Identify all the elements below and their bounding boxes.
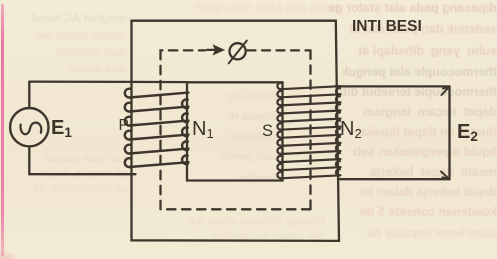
secondary coil right end arcs: [336, 88, 340, 94]
secondary coil S/N2 turns: [277, 83, 340, 178]
core outer outline: [132, 21, 340, 241]
flux meter M1 circle: [230, 43, 246, 59]
label P: [119, 118, 129, 134]
AC source sine glyph: [21, 123, 42, 135]
ghost text: top band above core: [130, 1, 340, 13]
core window: [187, 82, 283, 180]
arrowhead top-right: [442, 86, 450, 95]
load terminal vertical E2: [448, 86, 450, 179]
label E1: [51, 118, 72, 140]
primary coil P/N1 turns: [125, 89, 189, 167]
ghost show-through text: right column: [330, 2, 497, 15]
primary coil left end arcs: [125, 89, 131, 98]
wire: source top riser: [28, 82, 30, 108]
wire: bottom-right horizontal to load: [338, 178, 450, 180]
label N1: [192, 119, 214, 140]
label INTI BESI: [352, 19, 422, 35]
wire: bottom-left horizontal to core: [29, 173, 135, 175]
AC source S circle: [10, 108, 48, 146]
flux path dashed: top-right segment: [248, 49, 311, 51]
primary coil right end arcs: [182, 99, 188, 108]
pink page-edge strip: [1, 4, 4, 256]
flux path dashed: top-left segment: [161, 50, 206, 57]
ghost text: left margin: [8, 12, 126, 24]
wire: top-left horizontal to primary: [29, 80, 188, 83]
ghost text: inside core below flux path: [145, 215, 325, 227]
label S: [262, 123, 273, 140]
flux arrow: [207, 49, 216, 51]
secondary coil left end arcs: [277, 83, 281, 89]
wire: top-right horizontal to load: [334, 85, 450, 87]
wire: source bottom riser: [28, 146, 30, 174]
label E2: [457, 122, 478, 144]
flux path dashed: left vertical: [159, 57, 161, 209]
arrowhead bottom-right: [441, 172, 450, 180]
pink bottom-left smudge: [0, 250, 22, 259]
label N2: [340, 119, 362, 140]
flux path dashed: right vertical: [309, 50, 311, 209]
ghost text: inside window: [195, 90, 280, 102]
flux path dashed: bottom segment: [162, 208, 311, 210]
flux meter slash: [229, 41, 247, 64]
